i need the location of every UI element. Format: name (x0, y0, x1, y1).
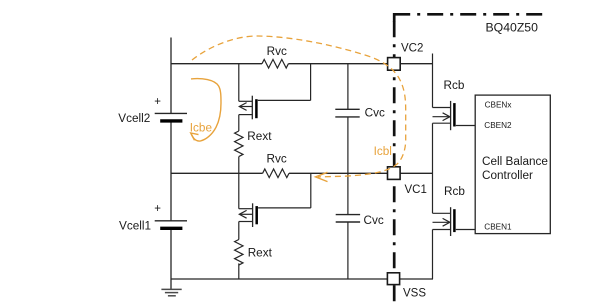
svg-text:CBEN1: CBEN1 (484, 223, 512, 232)
resistor Rext (lower) (235, 240, 243, 266)
chip boundary dash-dot vertical (393, 14, 396, 305)
wire Rext bottom to VC1 rail (238, 157, 240, 174)
svg-text:VC1: VC1 (405, 184, 427, 196)
wire Rext2 bottom to VSS rail (238, 263, 240, 279)
svg-text:Vcell1: Vcell1 (119, 220, 151, 233)
node VC1 square (388, 167, 401, 180)
svg-text:Cvc: Cvc (364, 214, 384, 227)
wire VC2 to Q3 with stub (432, 54, 434, 280)
svg-text:Icbe: Icbe (190, 122, 213, 135)
controller box U1 Cell Balance Controller (475, 95, 550, 234)
svg-text:Rext: Rext (248, 247, 273, 260)
resistor Rext (upper) (235, 131, 243, 157)
wire Q2 gate to VC1 rail (310, 173, 312, 208)
wire mid rail VC1 y=173.3 (171, 172, 433, 174)
wire Q1 gate to VC2 rail (310, 64, 312, 101)
svg-text:Rext: Rext (247, 130, 272, 143)
svg-text:Icbl: Icbl (374, 145, 392, 158)
wire bottom rail VSS y=279 (171, 278, 433, 280)
wire main left vertical (cell stack) (170, 38, 172, 291)
svg-text:Cell Balance: Cell Balance (482, 155, 548, 168)
svg-text:VC2: VC2 (401, 42, 423, 54)
svg-text:Rvc: Rvc (267, 45, 287, 58)
transistor Q1 (upper balancing FET) (239, 96, 311, 120)
node VSS square (387, 273, 399, 285)
svg-text:Rcb: Rcb (444, 185, 465, 198)
svg-text:Rcb: Rcb (444, 79, 465, 92)
svg-text:Controller: Controller (482, 169, 533, 182)
chip boundary corner stub (393, 13, 396, 22)
wire top rail VC2 y=63.7 (171, 63, 433, 65)
current path Icbl (dashed orange) (192, 36, 406, 177)
svg-text:CBENx: CBENx (485, 101, 512, 110)
svg-text:+: + (154, 203, 161, 215)
ground (161, 289, 181, 295)
svg-text:+: + (154, 96, 161, 108)
wire M2 drain vertical (238, 173, 240, 239)
chip boundary dash-dot horizontal BQ40Z50 (394, 13, 544, 16)
resistor Rvc (upper) (262, 59, 288, 68)
svg-text:BQ40Z50: BQ40Z50 (486, 20, 539, 34)
svg-text:Cvc: Cvc (365, 107, 385, 120)
battery Vcell1 (155, 221, 187, 229)
battery Vcell2 (155, 113, 187, 121)
wire M1 drain/source vertical x=238.8 (238, 64, 240, 131)
svg-text:VSS: VSS (403, 288, 426, 300)
svg-text:Rvc: Rvc (267, 152, 287, 165)
svg-text:CBEN2: CBEN2 (484, 121, 512, 130)
capacitor Cvc (upper) (347, 64, 349, 174)
transistor Q4 (internal FET lower) (433, 207, 476, 236)
current loop Icbe (solid orange) (191, 79, 221, 141)
transistor Q3 (internal FET upper) (433, 101, 476, 130)
svg-text:Vcell2: Vcell2 (118, 112, 150, 125)
capacitor Cvc (lower) (347, 173, 349, 279)
resistor Rvc (lower) (263, 169, 289, 178)
node VC2 square (388, 58, 401, 71)
transistor Q2 (lower balancing FET) (239, 203, 311, 227)
